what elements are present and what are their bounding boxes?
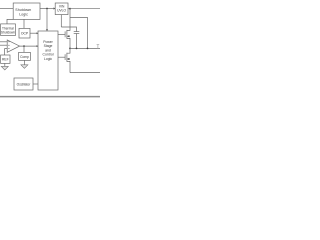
wire PGND rail to right edge: [70, 72, 100, 74]
wire VDD to Power Stage: [46, 9, 48, 30]
label Thermal Shutdown: [1, 27, 15, 35]
node comp junction dot: [23, 45, 25, 47]
wire OCP to Shutdown Logic: [23, 19, 25, 28]
transistor Q2 source lead: [67, 61, 70, 72]
svg-text:Comp: Comp: [20, 55, 29, 59]
node SW junction dot: [69, 48, 71, 50]
wire Comp to ground: [23, 60, 25, 64]
label Power Stage and Control Logic: [43, 40, 54, 61]
label VIN UVLO: [57, 4, 66, 12]
transistor Q1 high-side MOSFET drain lead: [67, 9, 70, 31]
op-amp input polarity marks: [8, 42, 9, 49]
block Oscillator: [14, 78, 33, 90]
arrow into Power Stage: [46, 29, 48, 31]
arrow into VIN UVLO: [54, 7, 56, 9]
wire REF to ground: [4, 63, 6, 66]
block Power Stage and Control Logic: [38, 31, 58, 90]
wire VDD down from UVLO: [60, 15, 62, 27]
wire OCP to Power Stage: [30, 32, 37, 34]
block Shutdown Logic: [13, 3, 40, 19]
wire comp node down to Comp block: [23, 46, 25, 52]
ground under REF: [1, 66, 8, 70]
wire Q2 gate drive: [58, 56, 65, 58]
wire SW line to right edge: [70, 47, 100, 49]
wire VIN branch to BST drop: [70, 18, 88, 49]
node VIN junction dot: [69, 8, 71, 10]
wire EN input: [0, 8, 13, 10]
transistor Q2 gate bar: [64, 54, 66, 60]
block OCP: [19, 28, 30, 38]
wire VDD over to bootstrap capacitor: [61, 27, 76, 32]
wire capacitor to SW node: [76, 34, 78, 49]
label Shutdown Logic: [15, 8, 31, 17]
wire Q1 gate drive: [58, 33, 65, 35]
svg-text:OCP: OCP: [21, 32, 29, 36]
node SW capacitor tap dot: [76, 48, 78, 50]
pin marker on SW line near right edge: [97, 45, 100, 49]
wire Shutdown Logic to VIN UVLO: [40, 8, 54, 10]
svg-text:Oscillator: Oscillator: [17, 83, 32, 87]
transistor Q2 body stub with arrow: [67, 58, 70, 60]
wire error amp output to Power Stage: [20, 45, 37, 47]
svg-text:UVLO: UVLO: [57, 9, 66, 13]
block Thermal Shutdown: [1, 24, 16, 36]
wire Thermal Shutdown to Shutdown Logic: [7, 19, 13, 24]
wire input 2: [0, 44, 7, 46]
transistor Q1 body stub with arrow: [67, 35, 70, 37]
ground under Comp: [21, 65, 28, 69]
wire REF input: [5, 49, 8, 55]
svg-text:Logic: Logic: [44, 57, 52, 61]
capacitor C1 bootstrap bottom plate: [74, 33, 80, 35]
op-amp U1 error amplifier: [7, 40, 19, 52]
transistor Q1 gate bar: [64, 31, 66, 37]
wire UVLO output to VIN node: [68, 8, 70, 10]
node SW BST-loop tap dot: [87, 48, 89, 50]
wire Oscillator to Power Stage: [33, 83, 38, 85]
svg-text:REF: REF: [2, 58, 9, 62]
transistor Q1 source lead: [67, 38, 70, 48]
node VDD junction dot: [46, 8, 48, 10]
wire VIN rail to right edge: [70, 8, 100, 10]
bottom rule: [0, 96, 100, 98]
transistor Q2 channel bar: [66, 53, 68, 62]
block VIN UVLO: [55, 3, 68, 15]
svg-text:Shutdown: Shutdown: [15, 8, 31, 12]
svg-text:Shutdown: Shutdown: [1, 31, 15, 35]
block REF: [1, 55, 10, 63]
transistor Q1 channel bar: [66, 30, 68, 39]
wire FB input: [0, 41, 7, 43]
block Comp: [19, 52, 31, 60]
capacitor C1 bootstrap top plate: [74, 31, 80, 33]
transistor Q2 low-side MOSFET drain lead: [67, 48, 70, 53]
svg-text:Logic: Logic: [19, 13, 28, 17]
